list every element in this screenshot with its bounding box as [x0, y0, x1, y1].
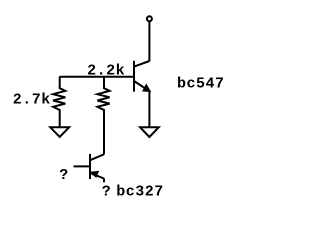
transistor Q2 bc327 base bar [89, 154, 91, 179]
wire collector vertical [148, 22, 150, 61]
svg-text:?: ? [59, 167, 68, 184]
svg-text:bc327: bc327 [116, 183, 164, 200]
terminal pin circle [147, 16, 152, 21]
resistor R2 2.2k body [97, 77, 109, 155]
transistor Q1 bc547 emitter arrow [143, 85, 150, 92]
svg-text:?: ? [102, 183, 111, 200]
svg-text:bc547: bc547 [177, 75, 225, 92]
wire base stub bc327 [74, 165, 91, 167]
transistor Q1 bc547 collector diagonal [134, 61, 150, 67]
wire base rail [60, 76, 134, 78]
ground right [140, 127, 159, 137]
transistor Q1 bc547 base bar [133, 61, 135, 92]
wire emitter stub bc327 [103, 178, 105, 182]
svg-text:2.7k: 2.7k [13, 92, 51, 109]
wire emitter to ground [148, 91, 150, 127]
resistor R1 2.7k body [53, 77, 65, 128]
svg-text:2.2k: 2.2k [87, 63, 125, 80]
ground left [50, 127, 69, 137]
transistor Q2 bc327 emitter diagonal [90, 173, 104, 179]
transistor Q1 bc547 emitter diagonal [134, 81, 149, 91]
transistor Q2 bc327 collector diagonal [90, 154, 105, 160]
transistor Q2 bc327 emitter arrow [90, 172, 98, 177]
